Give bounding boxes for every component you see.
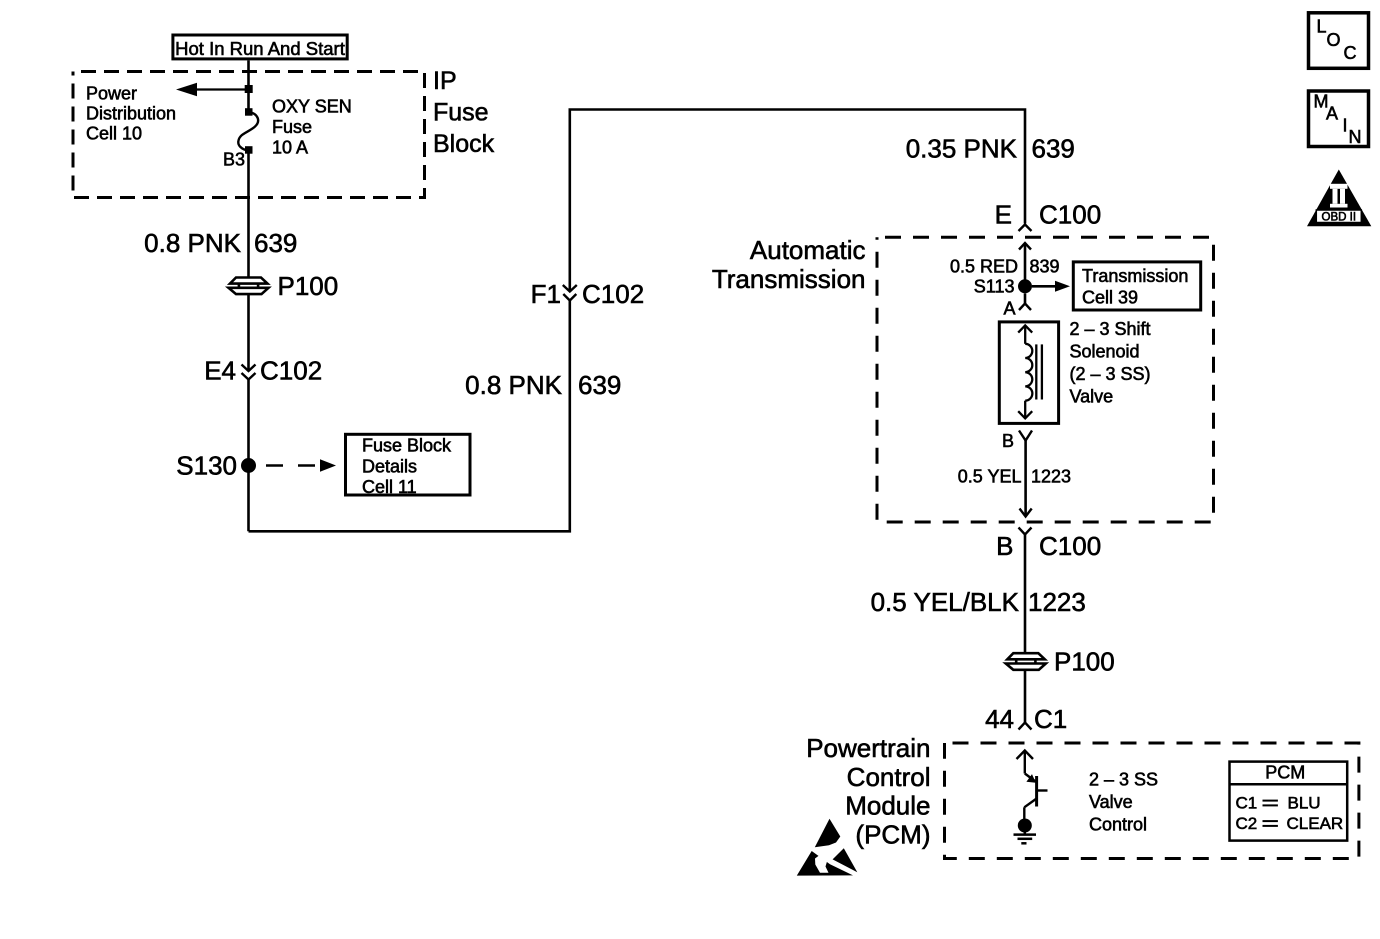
svg-text:Solenoid: Solenoid [1070, 342, 1140, 362]
connector B C100 [1019, 528, 1032, 654]
wire: E4 down to S130 [247, 380, 250, 532]
label: Powertrain Control Module (PCM) [806, 733, 930, 850]
svg-text:0.8 PNK: 0.8 PNK [465, 370, 562, 400]
label: 0.8 PNK 639 (right branch) [465, 370, 621, 400]
svg-text:44: 44 [985, 704, 1014, 734]
wire: fuse B3 down to P100 [247, 151, 250, 278]
label: 0.5 RED 839 [950, 257, 1060, 277]
splice S113 [1018, 279, 1032, 293]
svg-text:C2: C2 [1236, 814, 1258, 833]
fuse OXY SEN 10A [238, 108, 258, 154]
node: Fuse Block Details Cell 11 box [346, 434, 471, 497]
svg-text:Hot In Run And Start: Hot In Run And Start [175, 38, 345, 59]
Automatic Transmission dashed box [877, 237, 1214, 522]
svg-text:10 A: 10 A [272, 138, 308, 158]
svg-text:Automatic: Automatic [750, 235, 866, 265]
ESD hand cutout [815, 856, 829, 873]
label: OXY SEN Fuse 10 A [272, 97, 352, 158]
svg-text:639: 639 [254, 228, 297, 258]
svg-text:0.5 YEL/BLK: 0.5 YEL/BLK [871, 587, 1020, 617]
ESD warning symbol [797, 819, 858, 876]
wire: F1 up, right along top, down to C100 [570, 110, 1025, 292]
svg-text:Control: Control [1089, 815, 1147, 835]
svg-text:O: O [1327, 30, 1341, 50]
svg-text:1223: 1223 [1028, 587, 1086, 617]
svg-text:839: 839 [1030, 257, 1060, 277]
wire: up arrow from S113 to C100 [1019, 243, 1031, 286]
node: LOC legend box [1309, 13, 1369, 69]
connector E4 C102 [242, 365, 256, 380]
svg-text:E4: E4 [204, 356, 236, 386]
svg-text:639: 639 [578, 370, 621, 400]
svg-text:Cell 10: Cell 10 [86, 124, 142, 144]
node: ground in PCM [1014, 819, 1037, 844]
svg-text:2 – 3 SS: 2 – 3 SS [1089, 770, 1158, 790]
wire: down arrow leaving transmission box [1020, 509, 1032, 517]
node: Transmission Cell 39 box [1073, 262, 1200, 310]
label: 2-3 Shift Solenoid Valve [1070, 319, 1151, 407]
svg-text:CLEAR: CLEAR [1287, 814, 1344, 833]
svg-text:Fuse: Fuse [272, 117, 312, 137]
splice S130 [241, 458, 256, 473]
svg-text:639: 639 [1032, 134, 1075, 164]
svg-text:B: B [996, 531, 1013, 561]
label: Automatic Transmission [712, 235, 866, 294]
wire: S130 down, right, and up to F1 [249, 301, 570, 532]
svg-text:Cell 39: Cell 39 [1082, 288, 1138, 308]
svg-text:C100: C100 [1039, 200, 1101, 230]
svg-text:Cell 11: Cell 11 [362, 477, 417, 497]
svg-text:0.35 PNK: 0.35 PNK [906, 134, 1018, 164]
connector pin 44 C1 [1019, 723, 1032, 730]
node: junction at arrow [245, 85, 253, 93]
svg-text:P100: P100 [278, 271, 339, 301]
label: 0.5 YEL 1223 [958, 467, 1071, 487]
svg-text:B3: B3 [223, 150, 245, 170]
svg-text:E: E [995, 200, 1012, 230]
label: IP Fuse Block [433, 67, 495, 158]
connector pin A [1019, 293, 1031, 310]
svg-text:Power: Power [86, 84, 137, 104]
svg-text:P100: P100 [1054, 647, 1115, 677]
svg-text:OBD II: OBD II [1322, 212, 1357, 224]
svg-text:Details: Details [362, 457, 417, 477]
node: OBD II symbol [1307, 170, 1371, 227]
node: Hot In Run And Start title box [173, 35, 347, 59]
wire: from title box into fuse block [247, 61, 250, 113]
svg-text:Block: Block [433, 130, 495, 158]
svg-text:Fuse: Fuse [433, 99, 489, 127]
svg-text:BLU: BLU [1288, 794, 1321, 813]
svg-text:OXY SEN: OXY SEN [272, 97, 352, 117]
svg-text:Valve: Valve [1070, 387, 1114, 407]
svg-text:Control: Control [847, 762, 931, 792]
svg-text:1223: 1223 [1031, 467, 1071, 487]
svg-text:S130: S130 [176, 451, 237, 481]
svg-text:0.5 YEL: 0.5 YEL [958, 467, 1022, 487]
IP Fuse Block dashed box [73, 72, 425, 198]
svg-text:Module: Module [845, 791, 930, 821]
svg-text:I: I [1343, 116, 1348, 136]
svg-text:2 – 3 Shift: 2 – 3 Shift [1070, 319, 1151, 339]
svg-text:PCM: PCM [1265, 762, 1305, 782]
svg-text:C: C [1344, 43, 1357, 63]
svg-text:C102: C102 [582, 279, 644, 309]
wire: arrow to Power Distribution [176, 83, 249, 96]
PCM dashed box [945, 743, 1359, 859]
connector grommet P100 (right) [1006, 653, 1046, 670]
svg-text:Transmission: Transmission [712, 264, 866, 294]
connector pin B [1019, 431, 1032, 517]
label: 0.35 PNK 639 [906, 134, 1075, 164]
svg-text:C1: C1 [1236, 794, 1258, 813]
svg-text:IP: IP [433, 67, 457, 95]
wire: P100 down to PCM pin 44 [1024, 670, 1027, 723]
connector F1 C102 [563, 285, 577, 301]
svg-text:N: N [1349, 127, 1362, 147]
wire: P100 down to E4 C102 [247, 294, 250, 371]
svg-text:Powertrain: Powertrain [806, 733, 930, 763]
svg-text:Distribution: Distribution [86, 104, 176, 124]
node: PCM connector table [1230, 762, 1348, 841]
wire: dashed arrow to Fuse Block Details [266, 459, 336, 471]
solenoid coil [1018, 325, 1042, 418]
node: MAIN legend box [1309, 91, 1369, 147]
svg-text:(PCM): (PCM) [855, 820, 930, 850]
label: 0.8 PNK 639 [144, 228, 297, 258]
svg-text:S113: S113 [974, 277, 1015, 297]
svg-text:L: L [1317, 17, 1327, 37]
svg-text:A: A [1326, 104, 1338, 124]
svg-text:Fuse Block: Fuse Block [362, 436, 452, 456]
label: Power Distribution Cell 10 [86, 84, 176, 144]
svg-text:C1: C1 [1034, 704, 1067, 734]
svg-text:B: B [1002, 431, 1014, 451]
transistor driver (2-3 SS valve control) [1017, 751, 1048, 820]
svg-text:Valve: Valve [1089, 792, 1133, 812]
connector grommet P100 (left) [229, 278, 269, 295]
svg-text:A: A [1003, 299, 1015, 319]
solenoid 2-3 shift valve box [999, 322, 1058, 424]
svg-text:C102: C102 [260, 356, 322, 386]
label: 2-3 SS Valve Control [1089, 770, 1158, 835]
svg-text:0.8 PNK: 0.8 PNK [144, 228, 241, 258]
svg-text:0.5 RED: 0.5 RED [950, 257, 1018, 277]
svg-text:Transmission: Transmission [1082, 266, 1188, 286]
connector E C100 [1019, 225, 1032, 232]
svg-text:C100: C100 [1039, 531, 1101, 561]
svg-text:(2 – 3 SS): (2 – 3 SS) [1070, 364, 1151, 384]
svg-text:F1: F1 [531, 279, 561, 309]
wire: arrow from S113 to Transmission Cell 39 [1032, 281, 1070, 292]
label: 0.5 YEL/BLK 1223 [871, 587, 1086, 617]
